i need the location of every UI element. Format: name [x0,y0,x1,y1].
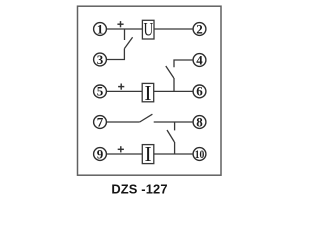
wire terminal3 to contact K1 [107,49,125,60]
plus polarity mark row3 [118,84,124,90]
wire terminal5 to coil I1 [107,90,143,92]
wire coil I1 to terminal6 [154,90,193,92]
svg-text:3: 3 [97,52,104,67]
current coil I2 [142,142,154,166]
svg-text:10: 10 [195,147,205,161]
terminal 7 [94,114,107,129]
plus polarity mark row5 [118,146,124,152]
terminal 8 [193,114,206,129]
wire coil I2 to terminal10 [154,153,193,155]
contact K1 fixed stub [124,29,126,40]
terminal 5 [94,84,107,99]
wire contact K3 to terminal8 [154,121,193,123]
voltage coil U [142,19,154,40]
contact K3 blade [140,114,153,122]
svg-text:9: 9 [97,146,104,161]
wire terminal9 to coil I2 [107,153,143,155]
relay case outline [78,6,222,175]
plus polarity mark row1 [117,21,123,27]
svg-text:6: 6 [196,84,203,99]
terminal 2 [193,21,206,36]
terminal 3 [94,52,107,67]
svg-text:I: I [145,142,152,166]
contact K4 blade [167,130,174,142]
current coil I1 [142,81,154,105]
terminal 9 [94,146,107,161]
terminal 10 [193,147,206,161]
wire coil U to terminal2 [154,28,193,30]
svg-text:4: 4 [196,52,203,67]
wire terminal4 to contact K2 [174,60,193,67]
wire contact K2 to row3 [173,78,175,91]
wire terminal7 to contact K3 [107,121,140,123]
svg-text:U: U [144,19,154,40]
terminal 1 [94,21,107,36]
wire terminal1 to coil U [107,28,143,30]
contact K4 fixed stub [174,122,176,130]
contact K2 blade [166,66,174,78]
wire contact K4 to row5 [174,142,176,154]
svg-text:I: I [144,81,151,105]
terminal 4 [193,52,206,67]
svg-text:8: 8 [196,114,203,129]
svg-text:5: 5 [97,84,104,99]
terminal 6 [193,84,206,99]
svg-text:7: 7 [97,114,104,129]
svg-text:1: 1 [97,21,104,36]
svg-text:2: 2 [196,21,203,36]
contact K1 blade [124,37,132,49]
svg-text:DZS -127: DZS -127 [111,182,167,197]
